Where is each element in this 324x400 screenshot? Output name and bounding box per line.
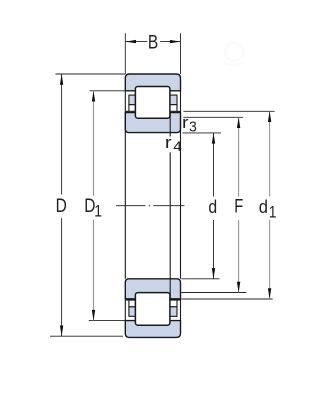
svg-text:F: F: [234, 194, 243, 217]
svg-text:r: r: [165, 133, 172, 152]
svg-text:3: 3: [189, 118, 197, 134]
svg-text:1: 1: [269, 203, 277, 222]
svg-text:r: r: [182, 112, 189, 131]
svg-text:B: B: [148, 31, 158, 53]
svg-text:D: D: [56, 194, 67, 216]
svg-text:d: d: [259, 196, 268, 217]
svg-text:1: 1: [94, 202, 102, 221]
svg-text:4: 4: [173, 140, 182, 155]
svg-text:d: d: [208, 196, 217, 218]
